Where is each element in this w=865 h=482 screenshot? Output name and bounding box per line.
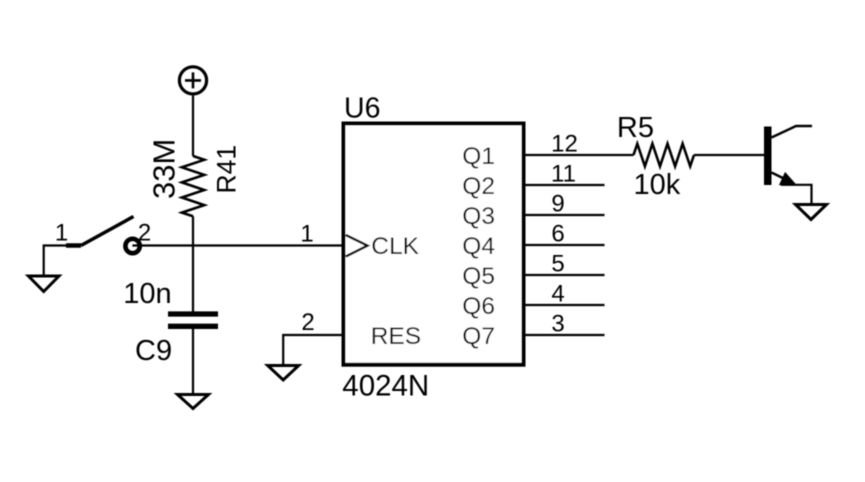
svg-text:4: 4 — [551, 280, 564, 307]
resistor R5 — [634, 144, 695, 167]
svg-text:6: 6 — [551, 220, 564, 247]
ground at switch pin 1 — [28, 276, 59, 292]
svg-text:R41: R41 — [212, 145, 242, 194]
emitter arrow — [780, 173, 796, 185]
transistor collector lead — [772, 126, 813, 138]
power supply +V symbol — [179, 67, 206, 94]
resistor R41 — [182, 156, 205, 216]
svg-text:CLK: CLK — [371, 233, 419, 260]
transistor emitter lead — [772, 173, 791, 182]
wire R41 to C9 (crosses CLK net) — [192, 216, 194, 311]
ground at emitter — [796, 205, 827, 220]
svg-text:10n: 10n — [123, 278, 171, 310]
switch lever S1 — [81, 217, 134, 246]
switch contact stub — [66, 243, 81, 248]
svg-text:R5: R5 — [617, 112, 654, 144]
wire Q5 pin 5 stub — [526, 274, 605, 276]
svg-text:RES: RES — [371, 323, 421, 350]
svg-text:9: 9 — [551, 190, 564, 217]
wire Q7 pin 3 stub — [526, 334, 605, 336]
svg-text:4024N: 4024N — [342, 369, 429, 402]
svg-text:1: 1 — [300, 220, 313, 247]
svg-text:Q2: Q2 — [462, 173, 495, 200]
svg-text:C9: C9 — [135, 335, 172, 367]
wire Q3 pin 9 stub — [526, 214, 605, 216]
wire R5 to transistor base — [694, 154, 764, 156]
IC U6 body — [344, 124, 524, 365]
svg-text:5: 5 — [551, 250, 564, 277]
svg-text:33M: 33M — [146, 139, 181, 199]
svg-text:Q3: Q3 — [462, 203, 495, 230]
svg-text:10k: 10k — [634, 169, 681, 201]
svg-text:1: 1 — [55, 220, 68, 247]
svg-text:2: 2 — [138, 220, 151, 247]
svg-text:12: 12 — [551, 130, 578, 157]
svg-text:3: 3 — [551, 310, 564, 337]
ground under C9 — [178, 395, 209, 409]
wire emitter to ground — [781, 185, 812, 204]
ground at RES pin — [268, 366, 299, 381]
wire node 2 to CLK pin — [132, 244, 343, 246]
capacitor C9 top plate — [168, 311, 218, 316]
svg-text:Q4: Q4 — [462, 233, 495, 260]
wire RES pin to ground — [283, 335, 343, 365]
clock wedge on CLK pin — [346, 235, 368, 257]
svg-text:11: 11 — [551, 160, 576, 187]
svg-text:Q1: Q1 — [462, 143, 495, 170]
svg-text:U6: U6 — [344, 93, 380, 125]
wire Q6 pin 4 stub — [526, 304, 605, 306]
wire power to R41 — [192, 96, 194, 156]
open terminal node (switch pin 2) — [125, 239, 139, 253]
wire C9 to ground — [192, 329, 194, 394]
wire Q4 pin 6 stub — [526, 244, 605, 246]
wire Q1 (pin 12) to R5 — [526, 154, 634, 156]
wire Q2 pin 11 stub — [526, 184, 605, 186]
transistor Q (base bar) — [764, 127, 772, 186]
svg-text:Q6: Q6 — [462, 293, 495, 320]
svg-text:Q5: Q5 — [462, 263, 495, 290]
svg-text:2: 2 — [301, 309, 314, 336]
wire ground to switch pin 1 — [44, 246, 81, 276]
svg-text:Q7: Q7 — [462, 323, 495, 350]
capacitor C9 bottom plate — [168, 324, 218, 329]
